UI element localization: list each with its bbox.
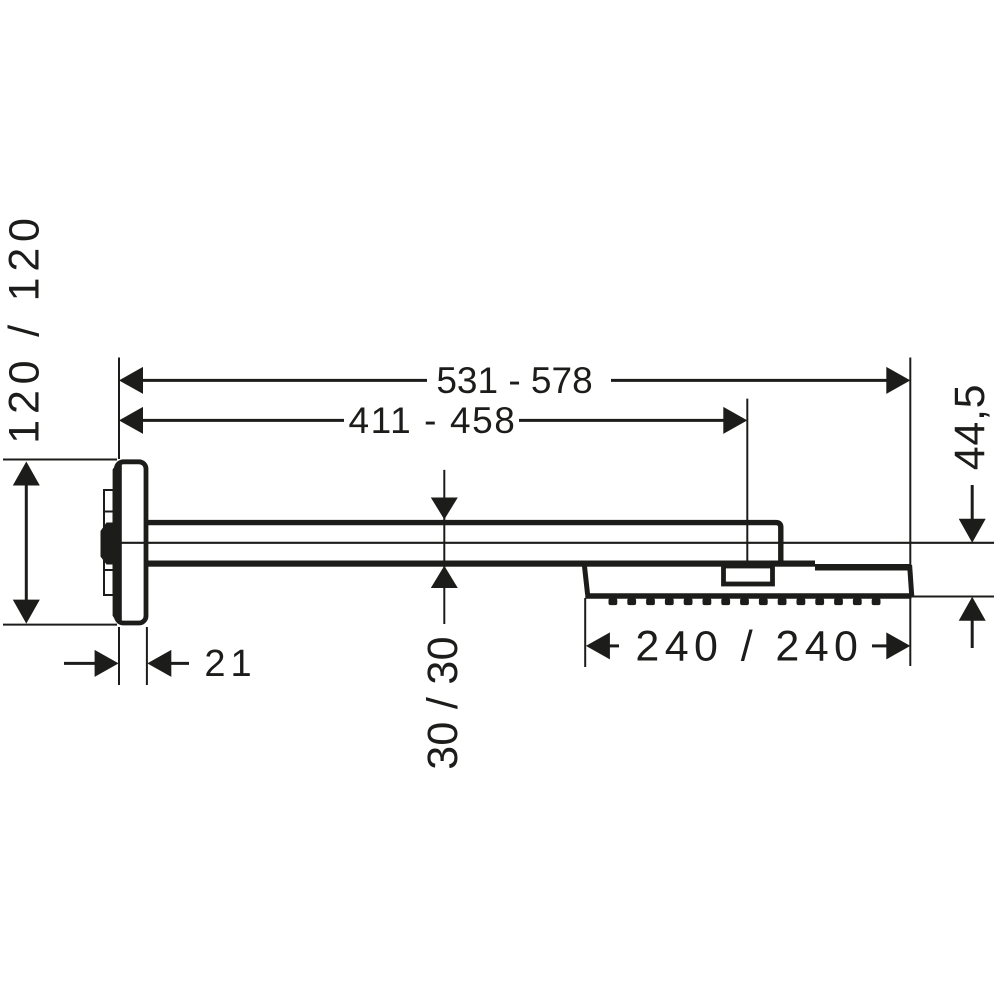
extension line left (wall face)	[118, 358, 120, 460]
arm top edge and right end	[146, 523, 781, 561]
svg-text:240 / 240: 240 / 240	[635, 622, 863, 670]
svg-text:531 - 578: 531 - 578	[436, 360, 592, 401]
dimension 21 line left	[64, 662, 95, 665]
extension line left below plate	[118, 627, 120, 685]
bracket divider upper	[104, 511, 114, 513]
arrow 120 up	[13, 462, 40, 486]
svg-text:44,5: 44,5	[946, 384, 994, 471]
dimension 411-458 line right segment	[519, 419, 725, 422]
dimension 531-578 line right segment	[611, 379, 888, 382]
wall bracket rectangle	[104, 490, 114, 595]
dimension 240 line left segment	[609, 644, 619, 647]
arrow 30/30 down to arm top	[431, 498, 458, 520]
dimension 531-578 line left segment	[141, 379, 427, 382]
dimension 120 vertical line	[25, 484, 28, 601]
wall plate left thick strip with chamfers	[113, 462, 122, 624]
extension line far right	[909, 358, 911, 667]
hex nut silhouette	[101, 523, 113, 565]
arm centerline	[120, 542, 994, 544]
dimension 411-458 line left segment	[141, 419, 344, 422]
dimension 44.5 lower leader	[971, 620, 974, 648]
arrow 411 left	[119, 407, 143, 434]
arrow 411 right	[723, 407, 747, 434]
arrow 240 right	[886, 632, 910, 659]
head bottom edge	[585, 593, 911, 598]
wall plate (escutcheon)	[116, 462, 146, 623]
svg-text:411 - 458: 411 - 458	[348, 400, 516, 441]
arrow 120 down	[13, 600, 40, 624]
tick 120 top	[3, 459, 117, 461]
svg-text:21: 21	[204, 643, 256, 685]
extension line 240 left	[584, 598, 586, 667]
44.5 lower reference line	[911, 596, 994, 598]
inlet connector rectangle	[724, 566, 773, 584]
tick 120 bottom	[3, 624, 117, 626]
svg-text:30 / 30: 30 / 30	[419, 636, 467, 770]
extension line 411 right	[746, 399, 748, 562]
nozzle ticks	[609, 598, 881, 605]
arrow 44.5 down	[959, 519, 986, 543]
arrow 21 right pointing left	[147, 650, 171, 677]
extension line mid (30/30)	[443, 470, 445, 624]
dimension 44.5 upper leader	[971, 485, 974, 520]
bracket divider lower	[104, 569, 114, 571]
extension line plate right below	[146, 627, 148, 685]
arrow 21 left pointing right	[95, 650, 119, 677]
svg-text:120 / 120: 120 / 120	[1, 212, 49, 444]
arrow 30/30 up to arm bottom	[431, 566, 458, 588]
dimension 240 line right segment	[872, 644, 888, 647]
head top right band	[815, 564, 910, 571]
head left edge	[584, 565, 587, 595]
arrow 240 left	[586, 632, 610, 659]
arrow 531 left	[119, 367, 143, 394]
dimension 21 line right	[171, 662, 189, 665]
arrow 531 right	[886, 367, 910, 394]
head right edge	[910, 565, 912, 597]
arrow 44.5 up	[959, 597, 986, 621]
arm bottom band	[146, 561, 815, 567]
